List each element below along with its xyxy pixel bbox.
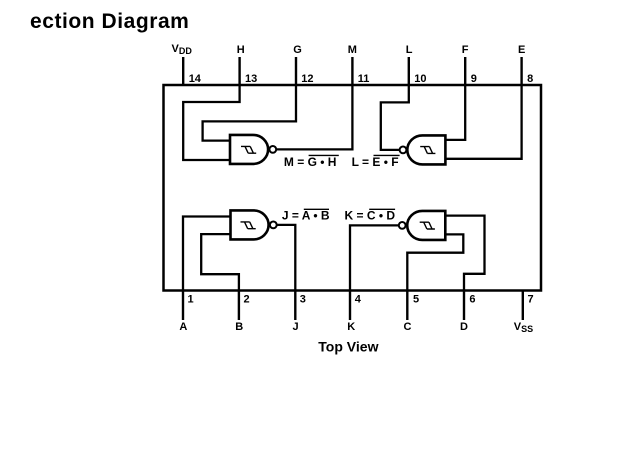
svg-text:K = C • D: K = C • D <box>345 209 396 223</box>
pin 13 stub <box>238 57 240 85</box>
svg-text:ection Diagram: ection Diagram <box>30 10 189 33</box>
pin 9 stub <box>464 57 466 85</box>
svg-text:C: C <box>404 321 412 333</box>
svg-text:J: J <box>293 321 299 333</box>
pin 5 stub <box>406 291 408 321</box>
wire pin13 H to U1a bottom input <box>183 85 239 160</box>
svg-text:11: 11 <box>358 73 370 85</box>
svg-text:5: 5 <box>413 293 419 305</box>
pin 8 stub <box>520 57 522 85</box>
U1b inner logo glyph <box>420 147 435 154</box>
wire pin2 B to U1c bottom input <box>201 234 239 290</box>
pin 10 stub <box>408 57 410 85</box>
U1d inner logo glyph <box>420 222 435 229</box>
svg-text:D: D <box>460 321 468 333</box>
NAND gate U1d body (lower-right, mirrored) <box>407 211 445 240</box>
svg-text:13: 13 <box>245 73 257 85</box>
svg-text:7: 7 <box>528 293 534 305</box>
svg-text:Top View: Top View <box>318 338 378 354</box>
svg-text:1: 1 <box>188 293 194 305</box>
U1c inner logo glyph <box>241 222 256 229</box>
svg-text:14: 14 <box>189 73 202 85</box>
wire pin12 G to U1a top input <box>203 85 296 141</box>
pin 12 stub <box>295 57 297 85</box>
svg-text:2: 2 <box>244 293 250 305</box>
svg-text:L = E • F: L = E • F <box>352 155 399 169</box>
U1a output bubble <box>269 146 276 153</box>
svg-text:B: B <box>235 321 243 333</box>
overline over C.D <box>369 208 395 210</box>
svg-text:4: 4 <box>355 293 362 305</box>
NAND gate U1a body (upper-left) <box>230 135 268 164</box>
pin 2 stub <box>238 291 240 321</box>
IC package body U1 <box>164 85 542 291</box>
svg-text:K: K <box>347 321 355 333</box>
wire U1d output to pin4 K <box>350 225 399 290</box>
svg-text:J = A • B: J = A • B <box>282 209 330 223</box>
wire U1b output to pin10 L <box>381 85 409 150</box>
U1b output bubble <box>400 147 407 154</box>
svg-text:M = G • H: M = G • H <box>284 155 337 169</box>
pin 6 stub <box>463 291 465 321</box>
svg-text:G: G <box>293 44 302 56</box>
svg-text:L: L <box>406 44 413 56</box>
wire pin9 F to U1b top input <box>445 85 465 140</box>
pin 14 stub <box>182 57 184 85</box>
NAND gate U1b body (upper-right, mirrored) <box>407 135 445 164</box>
svg-text:3: 3 <box>300 293 306 305</box>
overline over E.F <box>374 154 400 156</box>
svg-text:9: 9 <box>471 73 477 85</box>
U1a inner logo glyph <box>241 146 256 153</box>
pin 7 stub <box>522 291 524 321</box>
U1c output bubble <box>270 222 277 229</box>
svg-text:H: H <box>237 44 245 56</box>
svg-text:VSS: VSS <box>514 321 533 334</box>
wire pin6 D to U1d top input <box>445 216 484 291</box>
wire pin1 A to U1c top input <box>183 217 231 291</box>
overline over A.B <box>304 208 329 210</box>
pin 4 stub <box>349 291 351 321</box>
wire U1a output to pin11 M <box>276 85 352 149</box>
svg-text:A: A <box>179 321 187 333</box>
svg-text:8: 8 <box>527 73 533 85</box>
svg-text:6: 6 <box>469 293 475 305</box>
svg-text:E: E <box>518 44 525 56</box>
overline over G.H <box>309 154 339 156</box>
wire pin8 E to U1b bottom input <box>445 85 521 159</box>
wire pin5 C to U1d bottom input <box>407 234 463 290</box>
svg-text:10: 10 <box>414 73 426 85</box>
svg-text:F: F <box>462 44 469 56</box>
pin 11 stub <box>351 57 353 85</box>
pin 3 stub <box>294 291 296 321</box>
svg-text:M: M <box>348 44 357 56</box>
U1d output bubble <box>399 222 406 229</box>
svg-text:12: 12 <box>301 73 313 85</box>
svg-text:VDD: VDD <box>172 43 193 56</box>
pin 1 stub <box>182 291 184 321</box>
NAND gate U1c body (lower-left) <box>231 210 269 239</box>
wire U1c output to pin3 J <box>277 225 296 291</box>
